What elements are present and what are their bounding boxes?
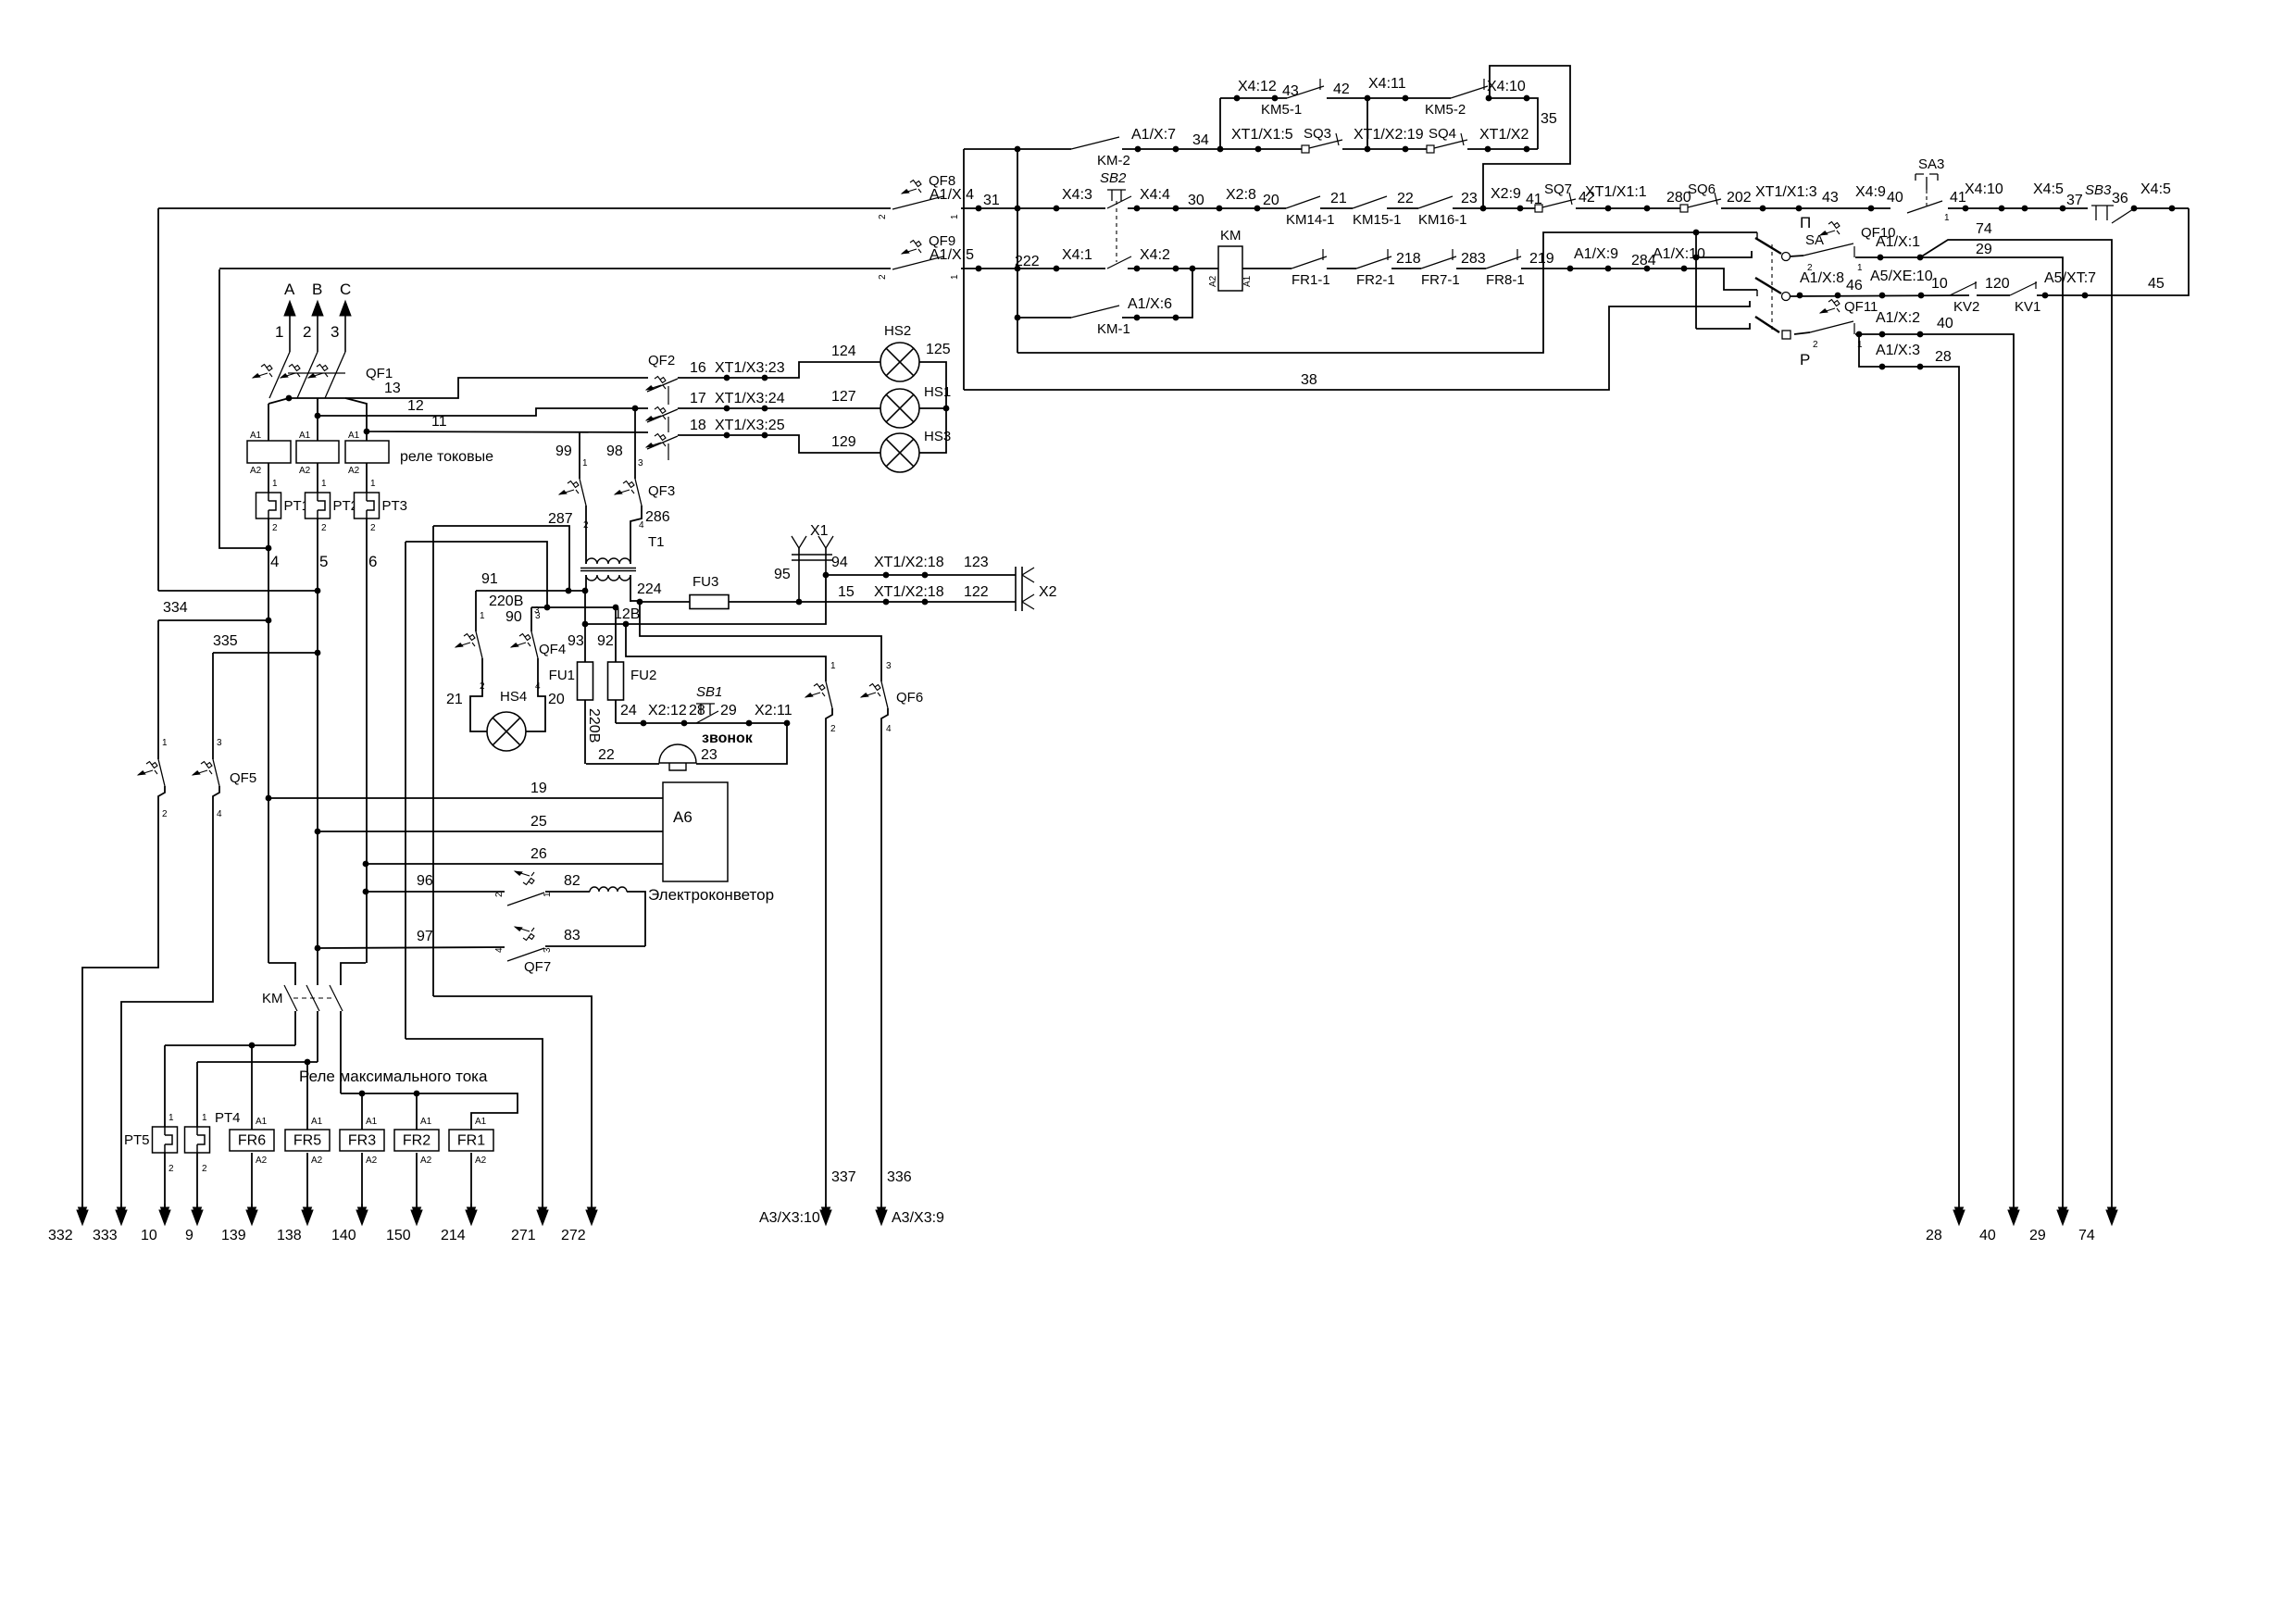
- svg-text:202: 202: [1727, 190, 1752, 206]
- arrow 333: [116, 1204, 127, 1225]
- svg-text:1: 1: [321, 479, 327, 489]
- wire KM-1 row b: [1122, 269, 1192, 318]
- label 96: [417, 873, 433, 889]
- wire QF8 row i: [1948, 207, 2088, 209]
- wire QF8 row b: [961, 207, 1105, 209]
- svg-text:QF3: QF3: [648, 483, 675, 499]
- svg-text:QF2: QF2: [648, 353, 675, 369]
- svg-text:139: 139: [221, 1228, 246, 1243]
- svg-text:95: 95: [774, 567, 791, 582]
- breaker QF5a: [138, 759, 165, 786]
- label 99: [555, 443, 572, 459]
- pin 2: [1807, 263, 1813, 273]
- nodes A1/X:1 dots: [1878, 255, 1924, 261]
- wire QF8 row g: [1576, 207, 1680, 209]
- pin 2: [370, 523, 376, 533]
- wire A1/X:2 row: [1855, 334, 2014, 1210]
- svg-text:99: 99: [555, 443, 572, 459]
- wire QF9 row h: [1521, 269, 1757, 290]
- push button SB3: [2085, 182, 2133, 223]
- wire QF8 row f: [1453, 207, 1535, 209]
- svg-text:335: 335: [213, 633, 238, 649]
- svg-text:XT1/X2: XT1/X2: [1479, 127, 1529, 143]
- svg-text:A1/X:5: A1/X:5: [930, 247, 974, 263]
- label 287: [548, 511, 573, 527]
- label 21: [1330, 191, 1347, 206]
- label FU3 lbl: [693, 574, 718, 590]
- svg-text:PT5: PT5: [124, 1132, 150, 1148]
- svg-text:38: 38: [1301, 372, 1317, 388]
- wire wire 19: [268, 797, 663, 799]
- nodes 16 dots: [724, 375, 768, 381]
- wire A1/X:3 row: [1859, 334, 1959, 1210]
- label A1/X:5: [930, 247, 974, 263]
- nodes 90 dots: [544, 605, 619, 611]
- wire wire 45: [2037, 208, 2189, 295]
- svg-text:36: 36: [2112, 191, 2128, 206]
- wire wire 83: [545, 945, 645, 947]
- wire QF9 row e: [1327, 268, 1356, 269]
- svg-text:1: 1: [1857, 340, 1863, 350]
- label 127: [831, 389, 856, 405]
- svg-text:A2: A2: [348, 466, 360, 476]
- wire wire 12V: [585, 575, 826, 624]
- node n fr6: [249, 1043, 256, 1049]
- svg-text:X4:9: X4:9: [1855, 184, 1886, 200]
- label 20: [1263, 193, 1279, 208]
- wire FU2 top v: [615, 607, 617, 662]
- contact FR8-1: [1486, 249, 1525, 288]
- wire wire 82: [545, 891, 590, 893]
- wire 12V to QF6: [626, 624, 826, 681]
- box FR5: [285, 1130, 330, 1151]
- connector X1: [792, 523, 833, 602]
- label XT1/X3:25: [715, 418, 785, 433]
- svg-text:15: 15: [838, 584, 855, 600]
- wire A1/X:1 row: [1855, 257, 2063, 1210]
- winding T1 primary: [586, 558, 630, 564]
- svg-text:X4:2: X4:2: [1140, 247, 1170, 263]
- wire T1 core2: [580, 570, 636, 572]
- label X4:5 a: [2033, 181, 2064, 197]
- wire drop 9: [196, 1153, 198, 1210]
- wire QF9 row d: [1242, 268, 1291, 269]
- wire row1 mid: [1327, 97, 1451, 99]
- svg-text:6: 6: [368, 553, 377, 570]
- svg-text:PT3: PT3: [382, 498, 408, 514]
- node n97: [315, 945, 321, 952]
- nodes 45 dots: [2042, 293, 2089, 299]
- node n335: [315, 650, 321, 656]
- arrow 337: [820, 1204, 831, 1225]
- svg-text:37: 37: [2066, 193, 2083, 208]
- breaker pole QF2c: [646, 434, 678, 450]
- svg-text:94: 94: [831, 555, 848, 570]
- svg-text:20: 20: [1263, 193, 1279, 208]
- svg-text:FU3: FU3: [693, 574, 718, 590]
- svg-text:XT1/X1:1: XT1/X1:1: [1585, 184, 1647, 200]
- svg-text:KM-2: KM-2: [1097, 153, 1130, 169]
- wire KM-1 row: [1017, 317, 1071, 319]
- svg-text:A2: A2: [250, 466, 262, 476]
- label QF7 lbl: [524, 959, 551, 975]
- label A5/XE:10: [1870, 269, 1933, 284]
- wire phase A v2: [268, 463, 269, 493]
- wire QF9 row f: [1391, 268, 1421, 269]
- label 19: [530, 781, 547, 796]
- arrow 271: [537, 1204, 548, 1225]
- svg-text:138: 138: [277, 1228, 302, 1243]
- node n676: [623, 621, 630, 628]
- svg-text:2: 2: [370, 523, 376, 533]
- svg-text:26: 26: [530, 846, 547, 862]
- label 337 arr: [831, 1169, 856, 1185]
- label 9 arr: [185, 1228, 193, 1243]
- svg-text:A1/X:4: A1/X:4: [930, 187, 974, 203]
- svg-text:KM5-1: KM5-1: [1261, 102, 1302, 118]
- node n 1832b: [1693, 255, 1700, 261]
- wire route 271: [406, 1039, 543, 1210]
- label 222: [1015, 254, 1040, 269]
- svg-text:220В: 220В: [586, 708, 602, 743]
- svg-text:333: 333: [93, 1228, 118, 1243]
- wire wire 74: [1920, 240, 2112, 1210]
- svg-text:FR2: FR2: [403, 1133, 430, 1149]
- label 20 lbl: [548, 692, 565, 707]
- svg-text:46: 46: [1846, 278, 1863, 294]
- svg-text:KM16-1: KM16-1: [1418, 212, 1467, 228]
- label 224: [637, 581, 662, 597]
- label 92: [597, 633, 614, 649]
- nodes 91 dots: [566, 588, 589, 594]
- svg-text:A1: A1: [475, 1117, 487, 1127]
- svg-text:XT1/X3:25: XT1/X3:25: [715, 418, 785, 433]
- node n fr5: [305, 1059, 311, 1066]
- pin 1: [1944, 213, 1950, 223]
- winding inductor: [590, 887, 627, 892]
- pin A1: [311, 1117, 323, 1127]
- label X4:10 b: [1965, 181, 2003, 197]
- label 5 lbl: [319, 553, 328, 570]
- svg-text:4: 4: [217, 809, 222, 819]
- breaker QF4b: [511, 631, 566, 658]
- label A3/X3:9: [892, 1210, 944, 1226]
- svg-text:SQ4: SQ4: [1429, 126, 1456, 142]
- nodes 1181 dots: [359, 1091, 420, 1097]
- label 150 arr: [386, 1228, 411, 1243]
- label 98: [606, 443, 623, 459]
- svg-text:P: P: [1800, 351, 1810, 369]
- bell (звонок): [659, 731, 754, 770]
- contactor KM main contacts: [262, 985, 343, 1011]
- svg-text:1: 1: [950, 214, 960, 219]
- label A6 lbl: [673, 808, 693, 826]
- contact SB1 blade: [696, 711, 718, 723]
- svg-text:FU2: FU2: [630, 668, 656, 683]
- node n334: [266, 618, 272, 624]
- svg-text:2: 2: [202, 1164, 207, 1174]
- wire v PT5: [164, 1045, 166, 1128]
- pin A1: [256, 1117, 268, 1127]
- label 202: [1727, 190, 1752, 206]
- svg-text:FR1: FR1: [457, 1133, 485, 1149]
- svg-text:3: 3: [638, 458, 643, 468]
- pin A2: [250, 466, 262, 476]
- contact SB2 blade: [1107, 196, 1131, 208]
- wire wire 82b: [627, 892, 645, 946]
- svg-text:222: 222: [1015, 254, 1040, 269]
- svg-text:X4:1: X4:1: [1062, 247, 1092, 263]
- pin 2: [480, 681, 485, 692]
- label XT1/X3:24: [715, 391, 785, 406]
- wire v 99: [579, 431, 580, 479]
- wire route 272: [433, 996, 592, 1210]
- svg-text:21: 21: [1330, 191, 1347, 206]
- svg-text:11: 11: [431, 414, 447, 430]
- breaker QF3a: [559, 479, 586, 506]
- label 123: [964, 555, 989, 570]
- svg-text:16: 16: [690, 360, 706, 376]
- label 280: [1666, 190, 1691, 206]
- contact KV1: [2010, 281, 2040, 315]
- wire phase C v3: [366, 518, 368, 963]
- svg-text:FR8-1: FR8-1: [1486, 272, 1525, 288]
- wire KM out C: [340, 1011, 342, 1093]
- contact KM5-2: [1425, 79, 1488, 118]
- wire QF2 link2: [668, 417, 669, 432]
- label 36: [2112, 191, 2128, 206]
- node n 1832a: [1693, 230, 1700, 236]
- svg-text:40: 40: [1979, 1228, 1996, 1243]
- label 40 arr: [1979, 1228, 1996, 1243]
- label X4:12: [1238, 79, 1277, 94]
- pin A1: [250, 431, 262, 441]
- label 94: [831, 555, 848, 570]
- svg-text:5: 5: [319, 553, 328, 570]
- label 43 row1: [1282, 83, 1299, 99]
- wire bypass 219: [1017, 232, 1757, 353]
- label 286: [645, 509, 670, 525]
- pin A2: [311, 1156, 323, 1166]
- svg-text:A3/X3:9: A3/X3:9: [892, 1210, 944, 1226]
- label QF2: [648, 353, 675, 369]
- box A6: [663, 782, 728, 881]
- svg-text:96: 96: [417, 873, 433, 889]
- contact FR7-1: [1421, 249, 1460, 288]
- svg-text:129: 129: [831, 434, 856, 450]
- wire phase A v3: [268, 518, 269, 963]
- label 83: [564, 928, 580, 943]
- pin 3: [217, 738, 222, 748]
- wire wire 91: [476, 590, 585, 592]
- svg-text:93: 93: [568, 633, 584, 649]
- label 74: [1976, 221, 1992, 237]
- svg-text:X4:10: X4:10: [1965, 181, 2003, 197]
- nodes QF9 row dots: [976, 266, 1688, 272]
- svg-text:1: 1: [582, 458, 588, 468]
- svg-text:C: C: [340, 281, 351, 298]
- wire drop 214: [470, 1153, 472, 1210]
- wire wire 96: [366, 891, 505, 893]
- arrow phase B: [312, 301, 323, 352]
- wire wire 25: [318, 831, 663, 832]
- arrow 28: [1953, 1207, 1965, 1225]
- pin 2: [321, 523, 327, 533]
- svg-text:FR2-1: FR2-1: [1356, 272, 1395, 288]
- pin 4: [639, 520, 644, 531]
- svg-text:3: 3: [886, 661, 892, 671]
- node n26: [363, 861, 369, 868]
- svg-text:125: 125: [926, 342, 951, 357]
- node n19: [266, 795, 272, 802]
- svg-text:122: 122: [964, 584, 989, 600]
- label A5/XT:7: [2044, 270, 2096, 286]
- svg-text:1: 1: [480, 611, 485, 621]
- wire wire 585: [406, 542, 547, 607]
- pin 4: [217, 809, 222, 819]
- label 124: [831, 344, 856, 359]
- svg-text:140: 140: [331, 1228, 356, 1243]
- pin 4: [535, 681, 541, 692]
- svg-text:FR7-1: FR7-1: [1421, 272, 1460, 288]
- svg-text:A1: A1: [250, 431, 262, 441]
- svg-text:X4:10: X4:10: [1487, 79, 1526, 94]
- box relay box C: [345, 441, 389, 463]
- svg-text:40: 40: [1937, 316, 1953, 331]
- svg-text:QF1: QF1: [366, 366, 393, 381]
- wire drop 138: [306, 1153, 308, 1210]
- svg-text:123: 123: [964, 555, 989, 570]
- breaker QF1: [253, 352, 393, 398]
- pin 1: [582, 458, 588, 468]
- SA pole 2: [1755, 278, 1791, 301]
- wire wire 18: [678, 435, 880, 453]
- pin 2: [162, 809, 168, 819]
- label A1/X:8: [1800, 270, 1844, 286]
- wire QF5 out3: [121, 786, 219, 1210]
- svg-text:XT1/X1:5: XT1/X1:5: [1231, 127, 1293, 143]
- label 11: [431, 414, 447, 430]
- wire wire 224-15: [630, 600, 640, 602]
- svg-text:280: 280: [1666, 190, 1691, 206]
- svg-text:SQ7: SQ7: [1544, 181, 1572, 197]
- svg-text:30: 30: [1188, 193, 1204, 208]
- label A1/X:4: [930, 187, 974, 203]
- label 3 lbl: [331, 323, 339, 341]
- svg-text:X1: X1: [810, 523, 829, 539]
- svg-text:25: 25: [530, 814, 547, 830]
- label 6 lbl: [368, 553, 377, 570]
- svg-text:271: 271: [511, 1228, 536, 1243]
- node n224: [637, 599, 643, 606]
- svg-text:3: 3: [543, 947, 553, 953]
- pin A1: [299, 431, 311, 441]
- wire wire 13b: [289, 378, 648, 398]
- svg-text:A1/X:9: A1/X:9: [1574, 246, 1618, 262]
- contact SB2 blade2: [1107, 256, 1131, 269]
- label 336 arr: [887, 1169, 912, 1185]
- label 45: [2148, 276, 2165, 292]
- wire phase B step: [317, 963, 318, 985]
- svg-text:X2:8: X2:8: [1226, 187, 1256, 203]
- label 82: [564, 873, 580, 889]
- svg-text:35: 35: [1541, 111, 1557, 127]
- wire sec right: [630, 575, 631, 602]
- svg-text:реле токовые: реле токовые: [400, 449, 493, 465]
- label XT1/X2: [1479, 127, 1529, 143]
- svg-text:219: 219: [1529, 251, 1554, 267]
- label 12В: [614, 606, 640, 622]
- label 28 arr: [1926, 1228, 1942, 1243]
- lamp HS4: [487, 712, 526, 751]
- svg-text:22: 22: [1397, 191, 1414, 206]
- lamp HS3: [880, 433, 919, 472]
- pin A2: [348, 466, 360, 476]
- svg-text:336: 336: [887, 1169, 912, 1185]
- breaker pole QF2a: [646, 377, 678, 393]
- label 29: [1976, 242, 1992, 257]
- wire v 438: [405, 542, 406, 1039]
- label 138 arr: [277, 1228, 302, 1243]
- label HS2 lbl: [884, 323, 911, 339]
- svg-text:18: 18: [690, 418, 706, 433]
- pin A1: [475, 1117, 487, 1127]
- wire v 468: [432, 526, 434, 996]
- nodes 17 dots: [632, 406, 768, 412]
- wire phase A v1: [268, 404, 269, 441]
- svg-text:12: 12: [407, 398, 424, 414]
- pin A2: [256, 1156, 268, 1166]
- svg-text:HS2: HS2: [884, 323, 911, 339]
- svg-text:97: 97: [417, 929, 433, 944]
- svg-text:A2: A2: [256, 1156, 268, 1166]
- contact KM16-1: [1418, 196, 1467, 228]
- label 332 arr: [48, 1228, 73, 1243]
- svg-text:Электроконветор: Электроконветор: [648, 886, 774, 904]
- label C lbl: [340, 281, 351, 298]
- label XT1/X2:18 b: [874, 584, 944, 600]
- label 17: [690, 391, 706, 406]
- wire kv mid: [1977, 294, 2010, 296]
- label 29 sb: [720, 703, 737, 718]
- label 23: [1461, 191, 1478, 206]
- contact KM-1: [1071, 306, 1130, 337]
- breaker pole QF2b: [646, 407, 678, 423]
- svg-text:1: 1: [830, 661, 836, 671]
- label X4:3: [1062, 187, 1092, 203]
- label 15: [838, 584, 855, 600]
- limit switch SQ4: [1427, 126, 1467, 153]
- wire v row1-KM2 a: [1219, 98, 1221, 149]
- pin 1: [202, 1113, 207, 1123]
- nodes row1 dots: [1234, 95, 1530, 102]
- box relay box B: [296, 441, 339, 463]
- nodes 18 dots: [724, 432, 768, 439]
- svg-text:A2: A2: [366, 1156, 378, 1166]
- svg-text:KV1: KV1: [2015, 299, 2040, 315]
- pin 2: [830, 724, 836, 734]
- svg-text:127: 127: [831, 389, 856, 405]
- label 43 b: [1822, 190, 1839, 206]
- wire FU1 bot v: [584, 700, 586, 764]
- current relay PT2: [306, 493, 359, 518]
- svg-text:A1: A1: [256, 1117, 268, 1127]
- svg-text:334: 334: [163, 600, 188, 616]
- label 29 arr: [2029, 1228, 2046, 1243]
- svg-text:X2:11: X2:11: [755, 703, 792, 718]
- label X2:12: [648, 703, 687, 718]
- svg-text:23: 23: [701, 747, 717, 763]
